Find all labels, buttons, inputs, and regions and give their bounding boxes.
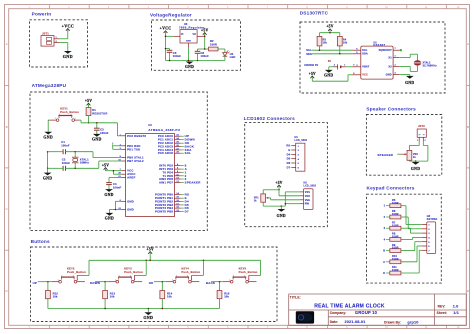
svg-text:3: 3 (59, 114, 60, 116)
ground C3 (92, 134, 102, 142)
svg-text:1: 1 (55, 118, 56, 120)
svg-text:Push_Button: Push_Button (124, 270, 143, 274)
wire AREF to C4 (109, 178, 122, 183)
svg-text:REAL TIME ALARM CLOCK: REAL TIME ALARM CLOCK (314, 304, 385, 310)
svg-text:VBAT: VBAT (362, 65, 370, 69)
wire X1 to crystal (399, 54, 417, 61)
svg-text:+5V: +5V (102, 163, 109, 167)
wire battery negative to GND (329, 67, 333, 70)
svg-text:+5V: +5V (309, 72, 316, 76)
svg-text:2: 2 (75, 118, 76, 120)
svg-text:PD1 TXD: PD1 TXD (127, 147, 140, 151)
svg-text:JST1: JST1 (42, 31, 49, 35)
svg-text:VSS: VSS (305, 191, 310, 194)
svg-text:2021-08-01: 2021-08-01 (345, 320, 366, 324)
resistor R1 RESISTOR (86, 106, 107, 115)
svg-text:100nF: 100nF (61, 143, 70, 147)
resistor R11 100R (390, 265, 401, 275)
svg-text:D6: D6 (287, 161, 291, 165)
svg-text:D7: D7 (185, 210, 189, 214)
svg-text:GND: GND (43, 176, 53, 180)
pushbutton KEY4 (166, 267, 201, 283)
wire R2 to LED (218, 49, 225, 52)
resistor R5 100R (390, 198, 401, 208)
svg-text:1: 1 (229, 280, 230, 282)
svg-text:3: 3 (233, 276, 234, 278)
svg-text:GND: GND (43, 136, 53, 140)
power +5V (reset pullup) (85, 99, 92, 107)
wire DOWN node (95, 281, 108, 291)
svg-text:XTAL1: XTAL1 (80, 157, 89, 161)
svg-text:+5V: +5V (275, 181, 282, 185)
svg-text:RS: RS (286, 144, 290, 148)
net label 4 (keypad) (384, 237, 390, 241)
wire +5V output net (198, 36, 209, 50)
power +5V (LCD) (275, 181, 282, 189)
svg-text:Push_Button: Push_Button (239, 270, 258, 274)
svg-text:C: C (383, 260, 385, 264)
wire R13 to ground rail (104, 299, 106, 309)
pushbutton KEY1 (48, 107, 79, 122)
svg-text:SPEAKER: SPEAKER (378, 153, 394, 157)
pushbutton KEY2 (51, 267, 86, 283)
svg-text:100R: 100R (392, 201, 399, 205)
capacitor C2 100nF (62, 158, 71, 171)
svg-text:GND: GND (277, 214, 286, 218)
svg-text:VI: VI (181, 34, 184, 36)
power +VCC (62, 23, 74, 32)
svg-text:1: 1 (58, 280, 59, 282)
svg-text:100nF: 100nF (100, 131, 109, 135)
power +VCC (regulator input) (160, 27, 172, 35)
svg-text:Company:: Company: (330, 311, 347, 315)
svg-text:PB7 XTAL2: PB7 XTAL2 (127, 159, 144, 163)
wire R7 to H3 pin 3 (401, 228, 422, 233)
svg-text:GND: GND (186, 41, 191, 43)
wire +5V LCD net (263, 188, 299, 196)
svg-text:3: 3 (176, 276, 177, 278)
net label SPEAKER (378, 153, 401, 157)
wire JST2 pin1 to pot top (409, 141, 419, 150)
svg-text:VEE: VEE (305, 199, 310, 202)
svg-text:D: D (383, 271, 385, 275)
svg-text:3: 3 (119, 276, 120, 278)
svg-text:REV:: REV: (438, 305, 446, 309)
ground battery (324, 70, 333, 78)
wire R14 to ground rail (161, 299, 163, 309)
ground speaker (411, 162, 420, 171)
svg-text:Drawn By:: Drawn By: (384, 320, 401, 324)
svg-text:SCL: SCL (362, 48, 368, 52)
wire KEY1 left to GND (47, 120, 49, 132)
ground VoltageRegulator (185, 62, 194, 70)
net label C (keypad) (383, 260, 390, 264)
svg-text:4: 4 (130, 276, 131, 278)
ground MCU (105, 213, 114, 221)
svg-text:PC6 RESET#: PC6 RESET# (127, 134, 146, 138)
svg-text:Buttons: Buttons (31, 239, 50, 244)
svg-text:+5V: +5V (85, 99, 92, 103)
capacitor C6 100nF (195, 49, 209, 61)
svg-text:GND: GND (127, 208, 134, 212)
svg-text:+VCC: +VCC (160, 27, 172, 31)
svg-text:Keypad Connectors: Keypad Connectors (367, 186, 415, 191)
svg-text:GND: GND (411, 167, 420, 171)
svg-text:100nF: 100nF (113, 185, 122, 189)
svg-text:A: A (6, 42, 8, 46)
wire R8 to H3 pin 4 (401, 237, 422, 239)
wire KEY3 supply drop (134, 260, 146, 280)
svg-text:4: 4 (70, 114, 71, 116)
svg-text:D7: D7 (287, 165, 291, 169)
svg-text:X2: X2 (388, 64, 392, 68)
svg-text:4: 4 (244, 276, 245, 278)
ground RTC (405, 76, 414, 85)
MCU U2 ATMEGA 328P-PU (118, 124, 180, 216)
resistor R13 10k (103, 291, 116, 299)
svg-text:SDA: SDA (306, 53, 312, 56)
wire R9 to H3 pin 5 (401, 242, 422, 251)
wire R10 to H3 pin 6 (401, 246, 422, 262)
svg-text:B: B (383, 249, 385, 253)
capacitor C3 100nF (94, 123, 109, 135)
svg-text:UP: UP (33, 281, 38, 285)
pushbutton KEY5 (223, 267, 258, 283)
svg-text:GND: GND (127, 199, 134, 203)
regulator U3 7805 (174, 23, 206, 47)
wire R1 to reset net (88, 116, 90, 124)
resistor R3 10k (317, 36, 327, 46)
wire +VCC input net (165, 34, 174, 61)
wire R15 to ground rail (219, 299, 221, 309)
svg-text:SQW/OUT: SQW/OUT (379, 48, 393, 52)
capacitor C5 100nF (167, 49, 182, 61)
svg-text:LED: LED (230, 55, 236, 59)
svg-text:X1: X1 (388, 55, 392, 59)
wire JST2 pin2 to ground rail (423, 141, 428, 161)
wire R11 to H3 pin 7 (401, 250, 422, 273)
svg-text:100nF: 100nF (173, 54, 182, 58)
svg-text:AIN1 PD7: AIN1 PD7 (159, 181, 173, 185)
svg-text:SCL: SCL (306, 49, 312, 52)
wire battery to VBAT (346, 65, 356, 67)
MCU U2 right-side pins (155, 134, 181, 213)
potentiometer VR2 1k (401, 150, 419, 160)
svg-text:Sheet:: Sheet: (437, 311, 448, 315)
battery B1 CR2032 3V (304, 61, 346, 69)
svg-text:CR2032 3V: CR2032 3V (304, 64, 318, 67)
svg-text:Push_Button: Push_Button (181, 270, 200, 274)
svg-text:10k: 10k (167, 295, 172, 299)
wire XTAL1 top (PB6) (48, 151, 122, 158)
wire LED to ground rail (224, 56, 226, 60)
wire R12 to ground rail (47, 299, 49, 309)
svg-text:D5: D5 (287, 157, 291, 161)
ground KEY1 (43, 132, 53, 140)
svg-text:JST2: JST2 (418, 124, 425, 128)
svg-text:4: 4 (73, 276, 74, 278)
title block texts (290, 296, 459, 325)
svg-text:ATMEGA_328P-PU: ATMEGA_328P-PU (148, 128, 180, 132)
svg-text:LCD1602 Connectors: LCD1602 Connectors (244, 116, 296, 121)
svg-text:+5V: +5V (147, 247, 154, 251)
svg-text:GND: GND (143, 315, 153, 320)
wire OK node (154, 281, 166, 291)
svg-text:+VCC: +VCC (62, 23, 74, 28)
net label D (keypad) (383, 271, 390, 275)
svg-text:Date:: Date: (330, 320, 339, 324)
wire SDA (312, 46, 353, 55)
svg-text:1: 1 (417, 140, 418, 142)
resistor R10 100R (390, 254, 401, 264)
svg-text:Push_Button: Push_Button (67, 270, 86, 274)
svg-text:GND: GND (63, 54, 73, 59)
resistor R8 100R (390, 232, 401, 242)
svg-text:grp10: grp10 (407, 320, 418, 324)
wire KEY2 supply drop (77, 260, 89, 280)
svg-text:GND: GND (324, 74, 333, 78)
svg-text:32.768KHz: 32.768KHz (423, 63, 438, 67)
svg-text:U2: U2 (148, 124, 152, 127)
wire regulator ground rail (166, 47, 225, 61)
svg-text:LCD_1602: LCD_1602 (304, 185, 317, 188)
svg-text:3: 3 (61, 276, 62, 278)
svg-text:PCINT5 PB5: PCINT5 PB5 (155, 210, 173, 214)
svg-text:B: B (6, 125, 8, 129)
svg-text:100R: 100R (392, 235, 399, 239)
connector H1 LCD_1602 (292, 136, 308, 171)
svg-text:16MHz: 16MHz (80, 161, 90, 165)
power +5V (RTC VCC) (309, 72, 316, 80)
svg-text:10k: 10k (343, 42, 348, 45)
svg-text:GND: GND (185, 65, 194, 69)
svg-text:GND: GND (105, 217, 114, 221)
resistor R6 100R (390, 209, 401, 219)
potentiometer VR1 1k (254, 194, 270, 202)
wire crystal left rail (47, 151, 49, 169)
svg-text:Speaker Connectors: Speaker Connectors (366, 107, 416, 112)
svg-text:DS1307RTC: DS1307RTC (300, 11, 329, 16)
svg-text:10k: 10k (53, 295, 58, 299)
power +5V (MCU supply) (102, 163, 109, 171)
wire crystal branch (74, 152, 76, 169)
wire LCD ground rail (263, 192, 299, 209)
title block frame (289, 294, 467, 325)
svg-text:KEYPAD: KEYPAD (427, 218, 438, 221)
svg-text:R1: R1 (92, 108, 96, 112)
wire UP node (38, 281, 52, 291)
svg-text:E: E (288, 148, 290, 152)
svg-text:100R: 100R (392, 223, 399, 227)
svg-text:SPEAKER: SPEAKER (185, 181, 202, 185)
wire JST1 pin1 to +VCC (59, 31, 68, 38)
power +5V (buttons) (147, 247, 154, 255)
wire R6 to H3 pin 2 (401, 217, 422, 229)
ground crystal (43, 168, 53, 180)
svg-text:GROUP 10: GROUP 10 (355, 310, 378, 315)
svg-text:GND: GND (405, 81, 414, 85)
wire BACK node (211, 281, 223, 291)
wire PD0/PD1 stubs (112, 143, 121, 149)
ground PowerIn (63, 51, 73, 59)
ground LCD (277, 209, 286, 218)
wire +5V pullup rail (320, 32, 340, 36)
wire SCL (312, 46, 353, 51)
net label 1 (keypad) (384, 204, 390, 208)
connector JST1 (41, 31, 59, 46)
svg-text:+5V: +5V (201, 28, 208, 32)
svg-text:10k: 10k (110, 295, 115, 299)
capacitor C4 100nF (106, 182, 121, 189)
svg-text:1: 1 (172, 280, 173, 282)
wire buttons ground rail (48, 308, 220, 313)
RTC U5 DS1307 (352, 42, 399, 79)
wire +5V to VCC/AVCC (106, 170, 122, 174)
svg-text:LCD_1602: LCD_1602 (295, 139, 308, 142)
svg-text:AREF: AREF (127, 176, 136, 180)
svg-text:VDD: VDD (305, 195, 311, 198)
power +5V (regulator output) (201, 28, 208, 36)
net label 2 (keypad) (384, 215, 390, 219)
connector JST2 (417, 124, 426, 142)
svg-text:TITLE:: TITLE: (290, 296, 301, 300)
svg-text:A: A (467, 42, 469, 46)
svg-text:VO: VO (192, 34, 196, 36)
svg-text:GND: GND (92, 138, 102, 142)
svg-text:100R: 100R (392, 257, 399, 261)
svg-text:B: B (467, 125, 469, 129)
connector H2 LCD_1602 (300, 182, 317, 210)
crystal XTAL1 16MHz (72, 157, 89, 165)
wire buttons +5V rail (89, 255, 261, 261)
pushbutton KEY3 (109, 267, 144, 283)
wire JST1 pin2 to GND (59, 43, 68, 51)
svg-text:VCC: VCC (362, 73, 368, 77)
svg-text:+5V: +5V (326, 25, 333, 29)
svg-text:100R: 100R (392, 212, 399, 216)
svg-text:GND: GND (104, 193, 113, 197)
wire R5 to H3 pin 1 (401, 206, 422, 225)
logo (296, 311, 314, 323)
wire X2 to crystal (399, 65, 417, 71)
svg-text:1.0: 1.0 (453, 305, 459, 309)
svg-text:RESISTOR: RESISTOR (92, 111, 107, 115)
connector H3 KEYPAD (422, 215, 438, 254)
wire KEY4 supply drop (192, 260, 204, 280)
wire +5V to VCC pin (312, 73, 355, 81)
wire RTC GND pin (399, 75, 410, 76)
svg-text:ATMega328PU: ATMega328PU (32, 83, 67, 88)
svg-text:PC5 ADC5: PC5 ADC5 (158, 151, 174, 155)
resistor R4 10k (337, 36, 347, 46)
svg-text:DS1307: DS1307 (373, 43, 385, 47)
svg-text:RW: RW (305, 203, 310, 206)
svg-text:PowerIn: PowerIn (32, 12, 52, 17)
wire reset net (79, 120, 122, 136)
svg-text:100R: 100R (392, 268, 399, 272)
wire XTAL1 bottom (PB7) (48, 161, 122, 169)
wire MCU GND pins (109, 201, 121, 213)
crystal XTAL2 32.768KHz (413, 61, 437, 68)
svg-text:2: 2 (425, 140, 426, 142)
power +5V (RTC pullups) (326, 25, 333, 33)
net label B (keypad) (383, 249, 390, 253)
wire KEY5 supply drop (249, 260, 261, 280)
resistor R2 100R (209, 39, 219, 51)
wire VR1 wiper to VEE (270, 198, 300, 200)
svg-text:100R: 100R (392, 246, 399, 250)
svg-text:D4: D4 (287, 152, 291, 156)
svg-text:OK: OK (149, 281, 154, 285)
svg-text:VoltageRegulator: VoltageRegulator (150, 12, 192, 17)
svg-text:100nF: 100nF (201, 54, 210, 58)
wire speaker ground rail (409, 160, 428, 162)
H1 net labels (286, 144, 292, 170)
svg-text:1: 1 (115, 280, 116, 282)
ground buttons (143, 312, 153, 320)
wire SQW/OUT stub (399, 49, 402, 51)
svg-text:10k: 10k (224, 295, 229, 299)
resistor R14 10k (160, 291, 173, 299)
capacitor C1 100nF (61, 140, 70, 154)
LED U4 (223, 50, 236, 59)
svg-text:SDA: SDA (362, 52, 368, 56)
net label 3 (keypad) (384, 226, 390, 230)
svg-text:100nF: 100nF (62, 161, 71, 165)
svg-text:SCL: SCL (185, 151, 192, 155)
resistor R7 100R (390, 220, 401, 230)
svg-text:100R: 100R (210, 42, 217, 46)
resistor R12 10k (46, 291, 59, 299)
resistor R9 100R (390, 243, 401, 253)
svg-text:GND: GND (386, 72, 392, 76)
MCU right-side net labels (181, 134, 201, 213)
svg-text:1/1: 1/1 (453, 311, 459, 315)
ground C4 (104, 189, 113, 197)
resistor R15 10k (217, 291, 230, 299)
svg-text:10k: 10k (323, 42, 328, 45)
svg-text:4: 4 (187, 276, 188, 278)
